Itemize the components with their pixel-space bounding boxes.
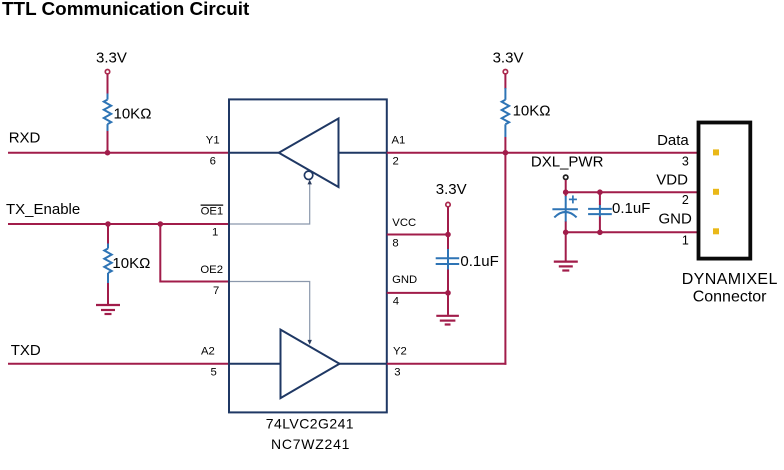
wire C2 blue lead bbox=[599, 205, 601, 217]
svg-text:0.1uF: 0.1uF bbox=[612, 200, 650, 217]
svg-text:A2: A2 bbox=[201, 345, 215, 357]
wire Y2 internal bbox=[340, 363, 387, 365]
svg-text:Connector: Connector bbox=[693, 288, 767, 305]
resistor R3 10K pullup A1 bbox=[502, 88, 509, 137]
svg-text:TTL Communication Circuit: TTL Communication Circuit bbox=[2, 0, 250, 20]
svg-text:VCC: VCC bbox=[392, 217, 416, 229]
svg-text:NC7WZ241: NC7WZ241 bbox=[271, 436, 350, 452]
svg-text:1: 1 bbox=[212, 227, 218, 239]
wire branch to OE2 bbox=[160, 224, 229, 282]
svg-text:74LVC2G241: 74LVC2G241 bbox=[266, 416, 354, 432]
svg-text:10KΩ: 10KΩ bbox=[112, 255, 150, 272]
resistor R2 10K pulldown bbox=[104, 244, 111, 284]
svg-text:OE2: OE2 bbox=[200, 264, 223, 276]
svg-text:3: 3 bbox=[394, 367, 400, 379]
svg-text:10KΩ: 10KΩ bbox=[513, 103, 551, 120]
connector J1 body bbox=[699, 123, 751, 259]
junction GND rail/C2 bbox=[597, 230, 603, 236]
wire GND stub bbox=[387, 292, 448, 294]
svg-text:TX_Enable: TX_Enable bbox=[6, 201, 80, 218]
wire VDD bbox=[566, 191, 699, 193]
svg-text:0.1uF: 0.1uF bbox=[460, 253, 498, 270]
junction A1/R3/Data bbox=[503, 150, 509, 156]
svg-text:RXD: RXD bbox=[9, 129, 41, 146]
svg-text:TXD: TXD bbox=[11, 342, 41, 359]
connector pin 2 pad bbox=[713, 189, 719, 195]
junction GND/C1/ground bbox=[445, 290, 451, 296]
wire Y2 bbox=[387, 363, 507, 365]
connector pin 1 pad bbox=[713, 228, 719, 234]
svg-text:8: 8 bbox=[392, 238, 398, 250]
capacitor C2 0.1uF bbox=[588, 209, 612, 214]
inverting bubble U1A bbox=[304, 171, 312, 179]
power 3.3V P3 bbox=[436, 181, 467, 207]
ground G3 bbox=[554, 262, 578, 271]
svg-text:6: 6 bbox=[210, 156, 216, 168]
wire P3 to VCC and C1 bbox=[447, 207, 449, 250]
wire C1 to GND and ground bbox=[447, 270, 449, 315]
svg-text:DXL_PWR: DXL_PWR bbox=[531, 154, 604, 171]
power 3.3V P1 bbox=[96, 50, 127, 74]
wire OE2 internal route with arrow bbox=[230, 282, 312, 345]
svg-text:3: 3 bbox=[682, 155, 689, 169]
pin label OE1 with overline bbox=[201, 205, 224, 218]
wire A2 internal bbox=[230, 363, 281, 365]
svg-text:2: 2 bbox=[682, 193, 689, 207]
wire TXD bbox=[8, 363, 229, 365]
svg-text:4: 4 bbox=[393, 296, 399, 308]
wire A1 to Data bbox=[387, 152, 699, 154]
wire R3 to A1 net bbox=[504, 137, 506, 153]
resistor R1 10K pullup RXD bbox=[104, 94, 111, 132]
wire TX_Enable to R2 bbox=[107, 224, 109, 244]
wire Y1 internal bbox=[230, 152, 279, 154]
wire C2 leads bbox=[599, 192, 601, 232]
wire A1 internal bbox=[339, 152, 387, 154]
svg-text:GND: GND bbox=[392, 274, 417, 286]
wire R2 to ground bbox=[107, 283, 109, 305]
svg-text:10KΩ: 10KΩ bbox=[114, 106, 152, 123]
svg-text:Y1: Y1 bbox=[206, 134, 220, 146]
op-amp U1 body 74LVC2G241 bbox=[229, 99, 387, 412]
wire P2 to R3 bbox=[504, 75, 506, 90]
svg-text:1: 1 bbox=[682, 234, 689, 248]
ground G1 bbox=[96, 305, 120, 314]
svg-text:3.3V: 3.3V bbox=[96, 50, 127, 67]
svg-text:2: 2 bbox=[393, 156, 399, 168]
wire DXL_PWR to VDD and C3 bbox=[565, 180, 567, 197]
wire A1 to Y2 vertical bbox=[504, 153, 506, 365]
wire OE1 internal route with arrow bbox=[230, 180, 312, 224]
capacitor C3 polarized bbox=[552, 195, 578, 222]
svg-text:Data: Data bbox=[657, 132, 689, 149]
svg-text:7: 7 bbox=[213, 285, 219, 297]
wire R1 to RXD net bbox=[107, 131, 109, 153]
power 3.3V P2 bbox=[493, 50, 524, 74]
junction VDD/DXL_PWR/C3 bbox=[563, 189, 569, 195]
junction RXD/R1 bbox=[105, 150, 111, 156]
svg-text:3.3V: 3.3V bbox=[493, 50, 524, 67]
junction GND rail/C3 bbox=[563, 230, 569, 236]
buffer U1A triangle bbox=[279, 119, 339, 188]
junction VDD/C2 bbox=[597, 189, 603, 195]
svg-text:DYNAMIXEL: DYNAMIXEL bbox=[682, 271, 778, 288]
capacitor C1 0.1uF bbox=[436, 258, 460, 264]
junction TX_Enable/R2 bbox=[105, 221, 111, 227]
svg-text:3.3V: 3.3V bbox=[436, 181, 467, 198]
svg-text:5: 5 bbox=[211, 367, 217, 379]
wire P1 to R1 bbox=[107, 75, 109, 95]
buffer U1B triangle bbox=[281, 330, 340, 399]
svg-text:OE1: OE1 bbox=[201, 206, 224, 218]
ground G2 bbox=[436, 316, 459, 325]
node DXL_PWR bbox=[531, 154, 604, 180]
junction VCC/P3/C1 bbox=[445, 232, 451, 238]
junction TX_Enable/OE2 branch bbox=[158, 221, 164, 227]
wire C3 to GND rail and ground bbox=[565, 222, 567, 261]
connector pin 3 pad bbox=[713, 149, 719, 155]
wire GND rail bbox=[566, 231, 699, 233]
svg-text:GND: GND bbox=[659, 210, 693, 227]
svg-text:Y2: Y2 bbox=[393, 345, 407, 357]
wire TX_Enable bbox=[8, 223, 229, 225]
wire RXD bbox=[8, 152, 229, 154]
svg-text:A1: A1 bbox=[392, 134, 406, 146]
svg-text:VDD: VDD bbox=[656, 171, 688, 188]
wire VCC stub bbox=[387, 234, 448, 236]
wire C1 blue lead bbox=[447, 249, 449, 270]
